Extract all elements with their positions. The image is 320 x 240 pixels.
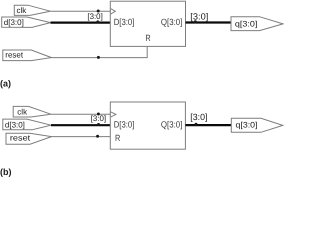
svg-text:reset: reset: [5, 50, 24, 59]
output port q[3:0] (a): [231, 17, 283, 31]
svg-text:D[3:0]: D[3:0]: [114, 17, 135, 27]
svg-text:clk: clk: [17, 6, 28, 15]
svg-text:clk: clk: [17, 107, 28, 116]
svg-text:R: R: [115, 133, 121, 143]
junction dot on clk wire (a): [97, 10, 100, 13]
svg-text:reset: reset: [10, 134, 31, 143]
input port clk (b): [13, 106, 51, 117]
svg-text:q[3:0]: q[3:0]: [236, 121, 258, 130]
input port d[3:0] (b): [3, 119, 51, 130]
junction dot on output bus (a): [194, 20, 197, 23]
svg-text:(a): (a): [0, 79, 11, 89]
clock input chevron (a): [111, 9, 116, 14]
svg-text:Q[3:0]: Q[3:0]: [161, 17, 183, 27]
register U1 (a): [110, 1, 185, 46]
input port reset (b): [6, 133, 52, 144]
output port q[3:0] (b): [231, 118, 282, 132]
wire reset to R pin (a): [51, 46, 147, 57]
input port d[3:0] (a): [2, 17, 51, 27]
wire clk to register clock pin (a): [50, 10, 111, 12]
svg-text:[3:0]: [3:0]: [91, 114, 106, 123]
svg-text:D[3:0]: D[3:0]: [114, 120, 135, 130]
svg-text:d[3:0]: d[3:0]: [4, 18, 24, 27]
bus d[3:0] to register D input (b): [51, 124, 110, 126]
svg-text:q[3:0]: q[3:0]: [235, 20, 258, 29]
svg-text:d[3:0]: d[3:0]: [5, 120, 25, 129]
junction dot on d bus (b): [97, 123, 100, 126]
junction dot on output bus (b): [195, 123, 198, 126]
bus d[3:0] to register D input (a): [51, 22, 111, 24]
junction dot on reset wire (a): [97, 56, 100, 59]
svg-text:[3:0]: [3:0]: [190, 11, 208, 21]
input port clk (a): [14, 5, 50, 15]
clock input chevron (b): [111, 112, 116, 117]
bus Q[3:0] to output port (b): [185, 124, 231, 126]
bus Q[3:0] to output port (a): [186, 21, 232, 23]
junction dot on clk wire (b): [97, 113, 100, 116]
svg-text:[3:0]: [3:0]: [190, 112, 207, 122]
register U2 (b): [110, 102, 185, 149]
junction dot on reset wire (b): [96, 135, 99, 138]
wire clk to register clock pin (b): [51, 113, 111, 115]
svg-text:[3:0]: [3:0]: [87, 12, 102, 21]
junction dot on d bus (a): [96, 20, 99, 23]
svg-text:R: R: [145, 33, 151, 43]
wire reset to R pin (b): [52, 136, 111, 138]
svg-text:(b): (b): [0, 167, 12, 177]
svg-text:Q[3:0]: Q[3:0]: [161, 120, 183, 130]
input port reset (a): [3, 50, 52, 61]
